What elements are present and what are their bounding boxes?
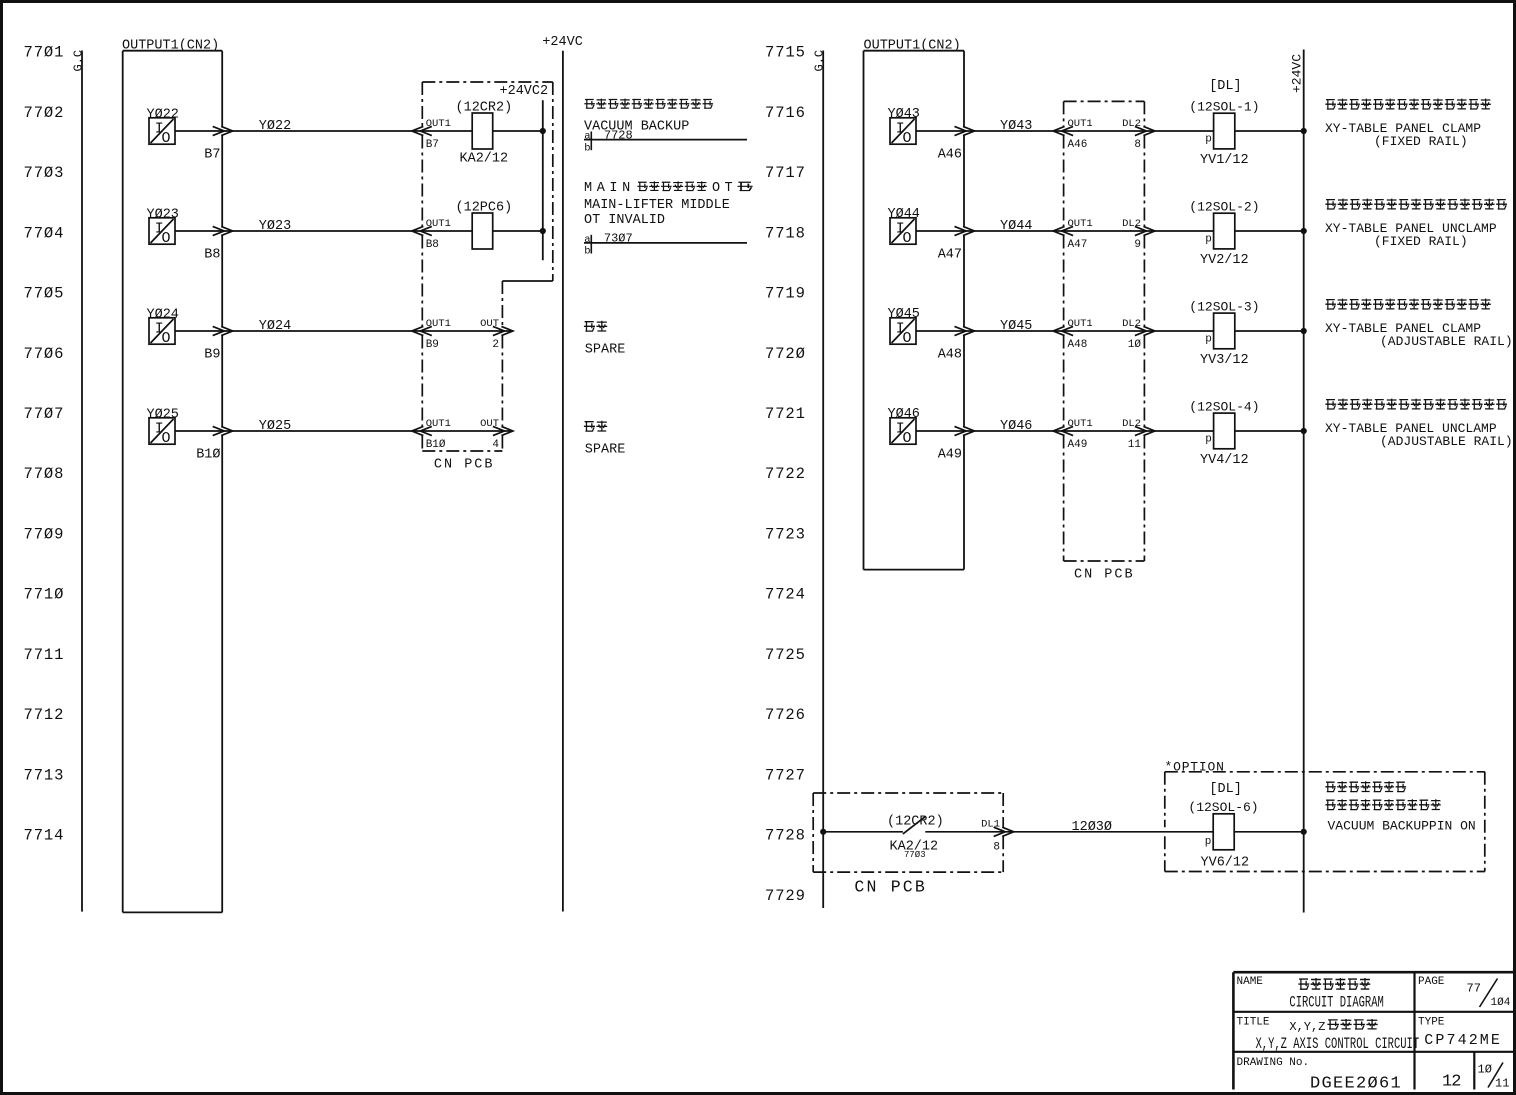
svg-text:G.C: G.C	[72, 50, 86, 72]
I/O output module Y023	[147, 207, 179, 247]
svg-text:77Ø3: 77Ø3	[24, 164, 65, 182]
svg-text:77Ø4: 77Ø4	[24, 224, 65, 242]
svg-text:7727: 7727	[765, 766, 806, 784]
svg-text:A49: A49	[938, 447, 962, 462]
svg-text:YV4/12: YV4/12	[1200, 453, 1249, 468]
svg-text:O: O	[162, 230, 171, 247]
svg-text:(FIXED RAIL): (FIXED RAIL)	[1374, 234, 1468, 249]
svg-text:KA2/12: KA2/12	[460, 151, 509, 166]
svg-text:OT INVALID: OT INVALID	[584, 213, 665, 228]
svg-text:4: 4	[492, 439, 499, 451]
svg-text:1Ø4: 1Ø4	[1491, 997, 1511, 1009]
connector pin OUT1 A49 on CN PCB (right)	[1053, 418, 1093, 451]
I/O output module Y046	[888, 407, 920, 447]
wire Y023 from module to connector CN2 pin B8	[175, 230, 473, 232]
svg-text:YØ46: YØ46	[1000, 419, 1032, 434]
svg-text:B1Ø: B1Ø	[426, 439, 446, 451]
power rail +24VC2	[500, 84, 549, 260]
annotation XY-table panel unclamp (adjustable rail)	[1325, 399, 1513, 449]
svg-text:p: p	[1205, 134, 1212, 146]
svg-text:A49: A49	[1068, 439, 1088, 451]
annotation VACUUM BACKUP	[584, 99, 713, 135]
svg-text:DL2: DL2	[1122, 418, 1141, 430]
svg-text:O: O	[162, 330, 171, 347]
contact KA2/12 (12CR2) NO contact, ref 7703	[887, 814, 944, 860]
svg-text:TITLE: TITLE	[1237, 1016, 1270, 1028]
wire solenoid YV3/12 to +24VC	[1235, 330, 1304, 332]
svg-text:7719: 7719	[765, 285, 806, 303]
node junction +24VC2 row 7704	[540, 228, 546, 234]
svg-text:a: a	[584, 131, 590, 143]
enclosure CN PCB (left, dash-dot)	[422, 82, 553, 473]
enclosure CN PCB (bottom, dash-dot)	[813, 793, 1003, 872]
svg-text:b: b	[584, 142, 590, 154]
svg-text:77Ø2: 77Ø2	[24, 104, 65, 122]
svg-text:A46: A46	[938, 147, 962, 162]
rung numbers 7701-7714	[24, 44, 65, 845]
svg-text:SPARE: SPARE	[585, 443, 626, 458]
svg-text:B9: B9	[426, 339, 439, 351]
svg-text:OT: OT	[712, 181, 737, 196]
label G.C (left)	[72, 50, 86, 72]
svg-text:CN PCB: CN PCB	[1074, 567, 1135, 582]
bus G.C right	[822, 51, 824, 909]
svg-text:(12CR2): (12CR2)	[887, 814, 944, 829]
svg-text:7716: 7716	[765, 104, 806, 122]
wire solenoid YV6 to +24VC	[1234, 831, 1304, 833]
svg-text:7711: 7711	[24, 646, 65, 664]
wire solenoid YV1/12 to +24VC	[1235, 130, 1304, 132]
svg-text:DL2: DL2	[1122, 218, 1141, 230]
label [DL] (option)	[1209, 782, 1241, 797]
svg-text:G.C: G.C	[813, 50, 827, 72]
svg-text:OUT1: OUT1	[1068, 218, 1093, 230]
solenoid YV2/12 (12SOL-2)	[1189, 200, 1259, 268]
bus G.C left	[81, 51, 83, 912]
svg-text:B8: B8	[204, 247, 220, 262]
node junction +24VC row 7721	[1301, 428, 1307, 434]
connector pin DL1 8 on CN PCB	[981, 818, 1014, 853]
net label Y045	[1000, 319, 1032, 334]
svg-text:7724: 7724	[765, 586, 806, 604]
svg-text:b: b	[584, 246, 590, 258]
svg-text:B7: B7	[426, 139, 439, 151]
node junction +24VC row 7728	[1301, 829, 1307, 835]
connector pin A47 on OUTPUT1(CN2)	[938, 226, 975, 262]
net label Y046	[1000, 419, 1032, 434]
svg-text:77Ø7: 77Ø7	[24, 405, 65, 423]
node junction +24VC2 row 7702	[540, 128, 546, 134]
svg-text:p: p	[1205, 234, 1212, 246]
connector pin B9 on OUTPUT1(CN2)	[204, 326, 232, 362]
label CN PCB (bottom)	[854, 878, 927, 897]
svg-text:7726: 7726	[765, 706, 806, 724]
svg-text:[DL]: [DL]	[1209, 79, 1241, 94]
svg-text:YØ22: YØ22	[259, 119, 291, 134]
svg-text:7728: 7728	[765, 827, 806, 845]
svg-text:O: O	[903, 330, 912, 347]
svg-text:7725: 7725	[765, 646, 806, 664]
connector OUTPUT1(CN2) right	[864, 39, 965, 570]
svg-text:YØ45: YØ45	[1000, 319, 1032, 334]
node junction G.C row 7728	[820, 829, 826, 835]
node junction +24VC row 7716	[1301, 128, 1307, 134]
svg-text:77Ø5: 77Ø5	[24, 285, 65, 303]
connector pin OUT1 B10 on CN PCB	[412, 418, 451, 451]
svg-text:p: p	[1205, 434, 1212, 446]
connector pin OUT1 A47 on CN PCB (right)	[1053, 218, 1093, 251]
annotation SPARE row 7707	[584, 421, 625, 458]
svg-text:CP742ME: CP742ME	[1424, 1032, 1502, 1049]
svg-text:11: 11	[1495, 1077, 1509, 1091]
I/O output module Y025	[147, 407, 179, 447]
connector pin OUT 2 on CN PCB (spare)	[480, 318, 513, 351]
svg-text:DL1: DL1	[981, 818, 1000, 830]
svg-text:7729: 7729	[765, 887, 806, 905]
svg-text:7718: 7718	[765, 224, 806, 242]
svg-text:73Ø7: 73Ø7	[604, 232, 633, 246]
svg-text:OUT1: OUT1	[426, 418, 451, 430]
connector pin A48 on OUTPUT1(CN2)	[938, 326, 975, 362]
wire Y024 from module to connector CN2 pin B9	[175, 330, 513, 332]
I/O output module Y022	[147, 107, 179, 147]
svg-text:O: O	[162, 130, 171, 147]
svg-text:OUT: OUT	[480, 318, 499, 330]
svg-text:9: 9	[1134, 239, 1141, 251]
svg-text:B1Ø: B1Ø	[196, 447, 220, 462]
solenoid YV1/12 (12SOL-1)	[1189, 100, 1259, 168]
svg-text:7721: 7721	[765, 405, 806, 423]
svg-text:A48: A48	[1068, 339, 1088, 351]
title block	[1233, 972, 1514, 1093]
svg-text:SPARE: SPARE	[585, 343, 626, 358]
svg-text:7712: 7712	[24, 706, 65, 724]
svg-text:CN PCB: CN PCB	[434, 458, 495, 473]
connector pin OUT1 B8 on CN PCB	[412, 218, 451, 251]
wire solenoid YV4/12 to +24VC	[1235, 430, 1304, 432]
wire Y044 to solenoid	[916, 230, 1213, 232]
svg-text:DL2: DL2	[1122, 318, 1141, 330]
svg-text:B8: B8	[426, 239, 439, 251]
net label Y024	[259, 319, 291, 334]
power rail +24VC (right column)	[1290, 50, 1305, 913]
connector pin A46 on OUTPUT1(CN2)	[938, 126, 975, 162]
connector pin DL2 11 on CN PCB (right)	[1122, 418, 1155, 451]
svg-text:YØ43: YØ43	[1000, 119, 1032, 134]
wire Y025 from module to connector CN2 pin B10	[175, 430, 513, 432]
connector OUTPUT1(CN2) left	[122, 39, 222, 913]
annotation XY-table panel clamp (adjustable rail)	[1325, 299, 1513, 349]
label [DL]	[1209, 79, 1241, 94]
node junction +24VC row 7718	[1301, 228, 1307, 234]
svg-text:O: O	[903, 430, 912, 447]
connector pin DL2 10 on CN PCB (right)	[1122, 318, 1155, 351]
svg-text:OUT1: OUT1	[1068, 118, 1093, 130]
connector pin OUT1 B7 on CN PCB	[412, 118, 451, 151]
wire Y043 to solenoid	[916, 130, 1213, 132]
svg-text:DL2: DL2	[1122, 118, 1141, 130]
net label Y043	[1000, 119, 1032, 134]
svg-text:DGEE2Ø61: DGEE2Ø61	[1310, 1074, 1402, 1093]
svg-text:7717: 7717	[765, 164, 806, 182]
annotation SPARE row 7705	[584, 321, 625, 358]
connector pin A49 on OUTPUT1(CN2)	[938, 426, 975, 462]
svg-text:A46: A46	[1068, 139, 1088, 151]
net label Y023	[259, 219, 291, 234]
contact cross-reference a/b 7728	[584, 128, 747, 154]
svg-text:1Ø: 1Ø	[1478, 1063, 1492, 1077]
svg-text:(12SOL-6): (12SOL-6)	[1188, 800, 1258, 815]
net label Y025	[259, 419, 291, 434]
svg-text:7713: 7713	[24, 766, 65, 784]
svg-text:+24VC: +24VC	[1290, 54, 1305, 93]
svg-text:11: 11	[1128, 439, 1142, 451]
svg-text:77: 77	[1467, 982, 1481, 996]
node junction +24VC row 7720	[1301, 328, 1307, 334]
svg-text:[DL]: [DL]	[1209, 782, 1241, 797]
svg-text:A47: A47	[938, 247, 962, 262]
svg-text:771Ø: 771Ø	[24, 586, 65, 604]
svg-text:O: O	[903, 230, 912, 247]
svg-text:7728: 7728	[604, 128, 633, 142]
svg-text:PAGE: PAGE	[1418, 976, 1445, 988]
svg-text:YV3/12: YV3/12	[1200, 353, 1249, 368]
svg-text:O: O	[162, 430, 171, 447]
wire coil 12PC6 to +24VC2	[493, 230, 543, 232]
wire solenoid YV2/12 to +24VC	[1235, 230, 1304, 232]
enclosure *OPTION (dash-dot)	[1165, 760, 1485, 872]
svg-text:a: a	[584, 234, 590, 246]
svg-text:p: p	[1205, 334, 1212, 346]
svg-text:+24VC2: +24VC2	[500, 84, 549, 99]
svg-text:YV2/12: YV2/12	[1200, 253, 1249, 268]
power rail +24VC (left column)	[542, 35, 583, 912]
svg-text:YØ24: YØ24	[259, 319, 291, 334]
svg-text:+24VC: +24VC	[542, 35, 583, 50]
svg-text:77Ø6: 77Ø6	[24, 345, 65, 363]
relay coil (12PC6)	[456, 200, 513, 249]
svg-text:(ADJUSTABLE RAIL): (ADJUSTABLE RAIL)	[1380, 334, 1513, 349]
svg-text:CIRCUIT DIAGRAM: CIRCUIT DIAGRAM	[1289, 994, 1384, 1011]
I/O output module Y024	[147, 307, 179, 347]
svg-text:B9: B9	[204, 347, 220, 362]
connector pin OUT1 B9 on CN PCB	[412, 318, 451, 351]
solenoid YV6/12 (12SOL-6)	[1188, 800, 1258, 871]
wire Y045 to solenoid	[916, 330, 1213, 332]
svg-text:OUT: OUT	[480, 418, 499, 430]
svg-text:7715: 7715	[765, 44, 806, 62]
svg-text:1Ø: 1Ø	[1128, 339, 1142, 351]
svg-text:(ADJUSTABLE RAIL): (ADJUSTABLE RAIL)	[1380, 434, 1513, 449]
svg-text:YV6/12: YV6/12	[1201, 855, 1250, 870]
svg-text:OUT1: OUT1	[426, 218, 451, 230]
svg-text:772Ø: 772Ø	[765, 345, 806, 363]
svg-text:(FIXED RAIL): (FIXED RAIL)	[1374, 134, 1468, 149]
connector pin B10 on OUTPUT1(CN2)	[196, 426, 233, 462]
I/O output module Y043	[888, 107, 920, 147]
svg-text:2: 2	[492, 339, 499, 351]
annotation XY-table panel clamp (fixed rail)	[1325, 99, 1491, 149]
connector pin DL2 8 on CN PCB (right)	[1122, 118, 1155, 151]
net label 12030	[1072, 820, 1113, 835]
annotation MAIN-LIFTER MIDDLE OT INVALID	[584, 181, 753, 228]
svg-text:B7: B7	[204, 147, 220, 162]
I/O output module Y044	[888, 207, 920, 247]
connector pin OUT 4 on CN PCB (spare)	[480, 418, 513, 451]
svg-text:A48: A48	[938, 347, 962, 362]
svg-text:8: 8	[993, 842, 1000, 854]
I/O output module Y045	[888, 307, 920, 347]
solenoid YV4/12 (12SOL-4)	[1189, 400, 1259, 468]
svg-text:O: O	[903, 130, 912, 147]
wire coil 12CR2 to +24VC2	[493, 130, 543, 132]
svg-text:7714: 7714	[24, 827, 65, 845]
svg-text:12Ø3Ø: 12Ø3Ø	[1072, 820, 1113, 835]
svg-text:MAIN: MAIN	[584, 181, 635, 196]
net label Y022	[259, 119, 291, 134]
wire contact to solenoid YV6 (net 12030)	[925, 831, 1213, 833]
connector pin B7 on OUTPUT1(CN2)	[204, 126, 232, 162]
solenoid YV3/12 (12SOL-3)	[1189, 300, 1259, 368]
svg-text:7723: 7723	[765, 525, 806, 543]
connector pin DL2 9 on CN PCB (right)	[1122, 218, 1155, 251]
connector pin B8 on OUTPUT1(CN2)	[204, 226, 232, 262]
svg-text:77Ø9: 77Ø9	[24, 525, 65, 543]
svg-text:p: p	[1205, 836, 1212, 848]
svg-text:77Ø8: 77Ø8	[24, 465, 65, 483]
svg-text:VACUUM BACKUPPIN ON: VACUUM BACKUPPIN ON	[1328, 819, 1476, 834]
relay coil U (12CR2) KA2/12	[456, 100, 513, 166]
wire G.C to contact 12CR2	[823, 831, 903, 833]
connector pin OUT1 A48 on CN PCB (right)	[1053, 318, 1093, 351]
svg-text:OUT1: OUT1	[426, 118, 451, 130]
svg-text:7722: 7722	[765, 465, 806, 483]
svg-text:CN PCB: CN PCB	[854, 878, 927, 897]
rung numbers 7715-7729	[765, 44, 806, 905]
svg-text:YV1/12: YV1/12	[1200, 153, 1249, 168]
svg-text:12: 12	[1442, 1073, 1460, 1092]
net label Y044	[1000, 219, 1032, 234]
svg-text:77Ø1: 77Ø1	[24, 44, 65, 62]
svg-text:YØ23: YØ23	[259, 219, 291, 234]
enclosure CN PCB (right, dash-dot)	[1064, 101, 1145, 582]
svg-text:TYPE: TYPE	[1418, 1016, 1445, 1028]
label G.C (right)	[813, 50, 827, 72]
svg-text:X,Y,Z: X,Y,Z	[1289, 1020, 1325, 1034]
contact cross-reference a/b 7307	[584, 232, 747, 258]
annotation XY-table panel unclamp (fixed rail)	[1325, 199, 1507, 249]
svg-text:OUT1: OUT1	[426, 318, 451, 330]
svg-text:YØ25: YØ25	[259, 419, 291, 434]
svg-text:YØ44: YØ44	[1000, 219, 1032, 234]
svg-text:77Ø3: 77Ø3	[904, 850, 926, 860]
wire Y022 from module to connector CN2 pin B7	[175, 130, 473, 132]
connector pin OUT1 A46 on CN PCB (right)	[1053, 118, 1093, 151]
svg-text:NAME: NAME	[1237, 976, 1264, 988]
wire Y046 to solenoid	[916, 430, 1213, 432]
svg-text:A47: A47	[1068, 239, 1088, 251]
svg-text:VACUUM BACKUP: VACUUM BACKUP	[584, 119, 689, 134]
svg-text:8: 8	[1134, 139, 1141, 151]
annotation VACUUM BACKUPPIN ON	[1325, 781, 1475, 833]
svg-text:DRAWING No.: DRAWING No.	[1237, 1057, 1310, 1069]
svg-text:MAIN-LIFTER MIDDLE: MAIN-LIFTER MIDDLE	[584, 198, 730, 213]
svg-text:OUT1: OUT1	[1068, 418, 1093, 430]
svg-text:X,Y,Z AXIS CONTROL CIRCUIT: X,Y,Z AXIS CONTROL CIRCUIT	[1256, 1035, 1420, 1052]
svg-text:OUT1: OUT1	[1068, 318, 1093, 330]
